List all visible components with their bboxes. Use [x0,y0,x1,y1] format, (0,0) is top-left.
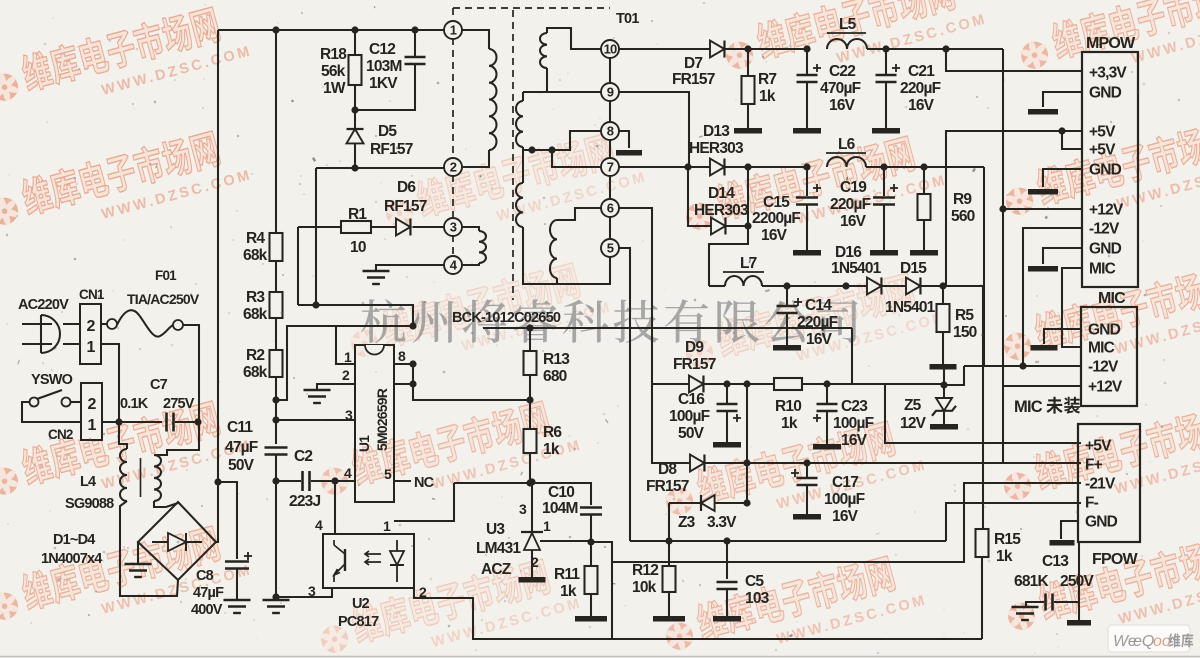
svg-text:-12V: -12V [1089,221,1120,238]
svg-text:D13: D13 [703,123,730,140]
svg-text:1k: 1k [543,441,560,458]
svg-text:R15: R15 [994,531,1021,548]
wire NC pin5 [394,480,411,482]
svg-text:4: 4 [315,517,323,533]
svg-text:C8: C8 [196,568,214,584]
svg-text:C23: C23 [841,398,868,415]
svg-text:NC: NC [414,475,435,491]
svg-text:R13: R13 [543,351,570,368]
svg-text:3.3V: 3.3V [707,514,737,531]
svg-text:103M: 103M [366,58,402,75]
svg-text:12V: 12V [900,415,927,432]
svg-text:MIC: MIC [1014,398,1043,416]
svg-text:50V: 50V [228,457,255,474]
svg-text:FR157: FR157 [672,71,715,88]
svg-text:C7: C7 [150,377,168,393]
ground MPOW gnd3 [1043,248,1082,264]
svg-text:GND: GND [1089,241,1122,258]
wire pin6 drop [619,208,652,384]
wire [71,401,81,403]
svg-text:103: 103 [745,590,770,607]
wire pin2 [414,588,612,639]
winding secondary A [547,28,601,49]
IC U1 5M02659R [355,345,394,502]
wire pin1 loop [336,326,355,364]
svg-text:150: 150 [953,324,977,341]
wire [120,501,178,596]
svg-text:2200µF: 2200µF [752,210,800,227]
wire MIC rows [964,365,1081,367]
svg-text:8: 8 [607,124,614,139]
svg-text:CN2: CN2 [48,427,73,442]
winding secondary C [522,150,524,183]
svg-text:100µF: 100µF [833,415,874,432]
wire [591,542,612,639]
svg-text:L4: L4 [80,474,96,490]
svg-text:R2: R2 [246,347,264,364]
ground pin2 [317,384,355,390]
winding primary 1 [462,30,489,49]
svg-text:F01: F01 [155,268,177,283]
svg-text:50V: 50V [678,425,705,442]
svg-text:16V: 16V [829,97,856,114]
svg-text:1N5401: 1N5401 [885,299,936,316]
svg-text:47µF: 47µF [193,585,224,601]
svg-text:D16: D16 [835,244,862,261]
svg-text:CN1: CN1 [79,287,105,302]
svg-text:R4: R4 [246,230,265,247]
svg-text:C14: C14 [805,297,832,314]
ground [137,542,139,564]
svg-text:2: 2 [86,318,95,335]
ground [376,265,445,271]
pin 2 [444,158,462,176]
svg-text:HER303: HER303 [689,140,744,157]
svg-text:TIA/AC250V: TIA/AC250V [127,291,200,307]
svg-text:+12V: +12V [1088,379,1123,396]
svg-text:5M02659R: 5M02659R [374,388,390,451]
svg-text:250V: 250V [1060,573,1094,590]
svg-text:2: 2 [87,396,96,413]
wire pin4 [335,480,355,482]
ground pin8 [619,131,629,148]
svg-text:RF157: RF157 [370,141,413,158]
pin 10 [601,40,619,58]
ground MIC gnd [1044,329,1081,344]
ground MPOW gnd2 [1043,169,1082,187]
winding primary 2 [462,227,479,231]
wire [154,501,178,507]
svg-text:1KV: 1KV [369,75,398,92]
svg-text:AC220V: AC220V [18,297,69,313]
svg-text:1k: 1k [781,415,798,432]
wire pin4 [334,481,336,534]
svg-text:68k: 68k [243,247,268,264]
svg-text:PC817: PC817 [338,614,379,630]
svg-text:D14: D14 [708,185,735,202]
svg-text:1k: 1k [560,583,577,600]
svg-text:3: 3 [519,501,527,517]
wire pin3 [276,419,355,421]
svg-text:FR157: FR157 [673,356,716,373]
svg-text:D1~D4: D1~D4 [53,532,95,548]
pin 8 [601,122,619,140]
wire pin3 [276,588,332,597]
svg-text:1: 1 [87,417,96,434]
wire [454,482,530,484]
svg-text:LM431: LM431 [476,540,521,557]
svg-text:5: 5 [384,466,392,482]
svg-text:HER303: HER303 [694,202,749,219]
pin 5 [601,239,619,257]
svg-text:-12V: -12V [1088,359,1119,376]
svg-text:5: 5 [607,241,614,256]
svg-text:-21V: -21V [1085,476,1116,493]
svg-text:L7: L7 [740,255,757,272]
connector FPOW [1078,424,1140,542]
svg-text:D7: D7 [684,55,702,72]
svg-text:R10: R10 [775,398,801,415]
wire pin7 stub [394,383,413,385]
wire +12V feed [1003,208,1082,210]
wire mid rail [483,327,852,329]
svg-text:U2: U2 [352,596,370,612]
svg-text:D5: D5 [378,123,397,140]
svg-text:56k: 56k [321,63,346,80]
pin 9 [601,83,619,101]
svg-text:10k: 10k [632,579,657,596]
wire -12V feed [1023,228,1082,366]
svg-text:MIC: MIC [1089,261,1116,278]
svg-text:16V: 16V [761,227,788,244]
svg-text:1: 1 [344,349,352,365]
pin 1 [444,21,462,39]
capacitor C8 47uF 400V [218,482,237,559]
wire [851,328,853,384]
svg-text:C13: C13 [1042,553,1069,570]
svg-text:Z3: Z3 [678,514,696,531]
wire [982,286,984,529]
svg-text:16V: 16V [806,331,833,348]
svg-text:T01: T01 [616,11,639,27]
svg-text:GND: GND [1088,322,1121,339]
wire D14 to L7 [709,226,748,286]
wire T01 aux rail [1002,49,1004,463]
wire pin1 [394,483,454,521]
svg-text:C5: C5 [745,573,764,590]
svg-text:+12V: +12V [1089,202,1124,219]
svg-text:C2: C2 [294,448,312,465]
wire [276,326,413,400]
connector MPOW [1082,52,1138,287]
svg-text:BCK-1012C02650: BCK-1012C02650 [452,310,561,326]
svg-text:680: 680 [543,368,567,385]
wire [413,364,530,400]
wire [557,257,610,284]
svg-text:R3: R3 [246,289,265,306]
wire [119,422,127,449]
ground FPOW aux [1061,521,1078,539]
svg-text:C17: C17 [832,474,858,491]
svg-text:R9: R9 [953,191,972,208]
svg-text:47µF: 47µF [225,439,258,456]
svg-text:L6: L6 [838,136,856,153]
pin 3 [444,218,462,236]
svg-text:L5: L5 [839,16,857,33]
wire [63,323,80,325]
svg-text:+5V: +5V [1085,438,1112,455]
wire [316,167,445,169]
svg-text:560: 560 [951,208,975,225]
svg-text:F-: F- [1085,495,1099,512]
svg-text:68k: 68k [243,306,268,323]
svg-text:R6: R6 [543,424,562,441]
svg-text:C10: C10 [548,484,574,501]
wire bottom rail [612,638,982,640]
wire [315,168,317,305]
svg-text:470µF: 470µF [820,80,861,97]
svg-text:1k: 1k [759,88,776,105]
svg-text:1: 1 [86,339,95,356]
connector MIC [1081,307,1137,406]
svg-text:D6: D6 [397,179,416,196]
svg-text:RF157: RF157 [384,198,427,215]
svg-text:+5V: +5V [1089,124,1116,141]
wire pin9 link [619,92,689,167]
pin 4 [444,256,462,274]
svg-text:C12: C12 [369,41,395,58]
svg-text:68k: 68k [243,364,268,381]
winding secondary B [523,91,601,93]
svg-text:MIC: MIC [1098,290,1126,307]
wire -21V feed [612,483,1081,562]
svg-text:275V: 275V [163,396,195,412]
svg-text:F+: F+ [1085,457,1103,474]
svg-text:104M: 104M [542,500,578,517]
svg-text:100µF: 100µF [669,408,710,425]
svg-text:3: 3 [450,220,457,235]
svg-text:400V: 400V [191,602,223,618]
svg-text:SG9088: SG9088 [65,496,114,512]
wire [102,421,162,423]
ground [263,599,290,601]
connector CN2 [81,383,102,440]
pin 6 [601,199,619,217]
svg-text:1k: 1k [996,548,1013,565]
wire [540,540,591,542]
wire pin links [609,58,611,83]
wire MIC link [1062,268,1082,347]
svg-text:16V: 16V [832,508,859,525]
svg-text:eQ: eQ [1133,633,1154,650]
svg-text:YSWO: YSWO [31,372,73,388]
svg-text:C11: C11 [227,419,253,436]
pin 7 [601,158,619,176]
svg-text:681K: 681K [1014,573,1049,590]
wire [523,131,601,150]
svg-text:4: 4 [344,465,352,481]
wire +5V row [630,540,946,542]
svg-text:2: 2 [450,160,457,175]
svg-text:D15: D15 [900,260,927,277]
svg-text:C21: C21 [908,63,935,80]
wire [154,422,199,455]
svg-text:1N5401: 1N5401 [831,260,882,277]
svg-text:+3,3V: +3,3V [1089,65,1127,82]
wire C11 rail [275,420,277,444]
wire [101,344,119,422]
svg-text:2: 2 [342,367,350,383]
svg-text:0.1K: 0.1K [120,396,149,412]
svg-text:R5: R5 [955,307,974,324]
svg-text:8: 8 [398,348,406,364]
optocoupler U2 PC817 [323,534,414,588]
svg-text:1: 1 [543,518,551,534]
svg-text:220µF: 220µF [830,196,871,213]
svg-text:GND: GND [1089,85,1122,102]
svg-text:223J: 223J [289,493,320,510]
svg-text:C16: C16 [678,391,705,408]
svg-text:C22: C22 [829,63,855,80]
svg-text:U3: U3 [486,521,505,538]
svg-text:7: 7 [607,160,614,175]
wire +310V rail [216,30,218,542]
wire FPOW +5V feed [885,384,1081,443]
svg-text:100µF: 100µF [824,491,865,508]
svg-text:220µF: 220µF [797,314,838,331]
wire pin5 drop [619,248,630,541]
svg-text:R7: R7 [758,71,776,88]
svg-text:C15: C15 [763,194,790,211]
svg-text:MIC: MIC [1088,340,1115,357]
svg-text:9: 9 [607,85,614,100]
svg-text:U1: U1 [356,435,372,452]
svg-text:FR157: FR157 [646,478,689,495]
wire pin8 [394,363,414,365]
svg-text:1: 1 [450,23,457,38]
wire +5V feed [946,131,1082,286]
svg-text:FPOW: FPOW [1092,551,1138,568]
svg-text:10: 10 [604,42,617,57]
svg-text:R11: R11 [554,566,580,583]
svg-text:oo: oo [1153,633,1171,650]
wire [552,150,601,167]
winding secondary D [557,208,601,220]
svg-text:GND: GND [1089,162,1122,179]
svg-text:16V: 16V [908,97,935,114]
svg-text:+5V: +5V [1089,142,1116,159]
svg-text:1N4007x4: 1N4007x4 [41,551,102,567]
svg-text:R12: R12 [632,562,658,579]
svg-text:10: 10 [350,239,366,256]
svg-text:16V: 16V [840,213,867,230]
wire divider rail [275,30,277,233]
svg-text:220µF: 220µF [900,80,941,97]
svg-text:GND: GND [1085,514,1118,531]
svg-text:1W: 1W [323,80,346,97]
svg-text:6: 6 [607,201,614,216]
svg-text:Z5: Z5 [904,397,922,414]
wire F- feed [946,503,1081,541]
svg-text:R18: R18 [320,46,347,63]
wire HV bus [218,29,453,31]
svg-text:1: 1 [383,518,391,534]
wire +3.3V feed [946,49,1082,71]
wire [22,402,81,422]
svg-text:16V: 16V [841,432,868,449]
wire [183,325,199,422]
ground MPOW gnd1 [1043,92,1082,107]
svg-text:MPOW: MPOW [1086,35,1136,52]
svg-text:ACZ: ACZ [481,561,512,578]
svg-text:C19: C19 [840,179,867,196]
